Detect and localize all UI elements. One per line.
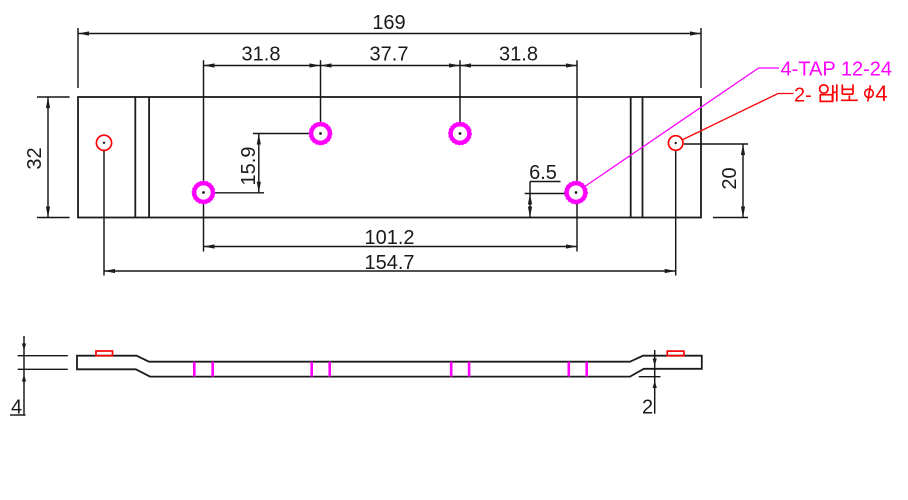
extension line x=460 (hole C centerline): [459, 60, 461, 133]
leader 2- emboss: [683, 84, 812, 139]
dimension 6.5: [525, 162, 566, 218]
value 4 after phi: [875, 81, 887, 106]
inner step line right B: [642, 97, 644, 218]
emboss bump left (side view): [96, 351, 113, 356]
inner step line right A: [630, 97, 632, 218]
tap hole D (bottom-right): [565, 181, 588, 204]
emboss circle right: [668, 136, 683, 151]
dimension 154.7: [104, 252, 676, 274]
svg-text:31.8: 31.8: [242, 44, 281, 66]
svg-text:169: 169: [372, 12, 405, 34]
svg-text:31.8: 31.8: [499, 44, 538, 66]
dimension 2 (side view right): [639, 350, 661, 419]
tap hole C (top-right): [449, 122, 472, 145]
dimension 31.8 right: [460, 44, 577, 68]
svg-text:101.2: 101.2: [364, 227, 414, 249]
extension line x=320.5 (hole B centerline): [320, 60, 322, 133]
extension line x=203.5 (hole A centerline): [203, 60, 205, 251]
extension line x=104 (emboss L centerline): [103, 151, 105, 276]
dimension 31.8 left: [204, 44, 321, 68]
svg-text:37.7: 37.7: [370, 44, 409, 66]
svg-text:4: 4: [875, 81, 887, 106]
side view profile: [77, 356, 702, 377]
tap hole B (top-left): [309, 122, 332, 145]
tap hole D side marks: [569, 362, 587, 377]
dimension 37.7: [321, 44, 461, 68]
tap hole B side marks: [312, 362, 330, 377]
extension line x=675.7 (emboss R centerline): [675, 151, 677, 276]
korean glyph 엠: [820, 84, 837, 101]
svg-text:6.5: 6.5: [529, 162, 557, 184]
leader 4-TAP 12-24: [586, 59, 893, 187]
extension line x=576 (hole D centerline): [576, 60, 578, 251]
dimension 15.9: [210, 134, 310, 193]
plate outline (top view): [78, 97, 701, 218]
dimension 4 (side view left): [10, 336, 68, 419]
svg-text:2-: 2-: [794, 84, 812, 106]
svg-text:32: 32: [24, 147, 46, 169]
dimension 20: [684, 144, 748, 218]
svg-text:154.7: 154.7: [364, 252, 414, 274]
svg-text:15.9: 15.9: [238, 147, 260, 186]
emboss circle left: [96, 135, 111, 150]
inner step line left B: [148, 97, 150, 218]
inner step line left A: [134, 97, 136, 218]
dimension 32: [24, 97, 70, 218]
svg-text:20: 20: [719, 167, 741, 189]
phi symbol: [865, 85, 874, 101]
dimension 169: [78, 12, 701, 88]
svg-text:2: 2: [642, 397, 653, 419]
tap hole C side marks: [451, 362, 469, 377]
emboss bump right (side view): [667, 351, 684, 356]
svg-text:4: 4: [11, 397, 22, 419]
tap hole A (bottom-left): [192, 181, 215, 204]
dimension 101.2: [204, 227, 578, 249]
tap hole A side marks: [194, 362, 212, 377]
svg-text:4-TAP 12-24: 4-TAP 12-24: [781, 59, 893, 81]
korean glyph 보: [841, 84, 858, 100]
